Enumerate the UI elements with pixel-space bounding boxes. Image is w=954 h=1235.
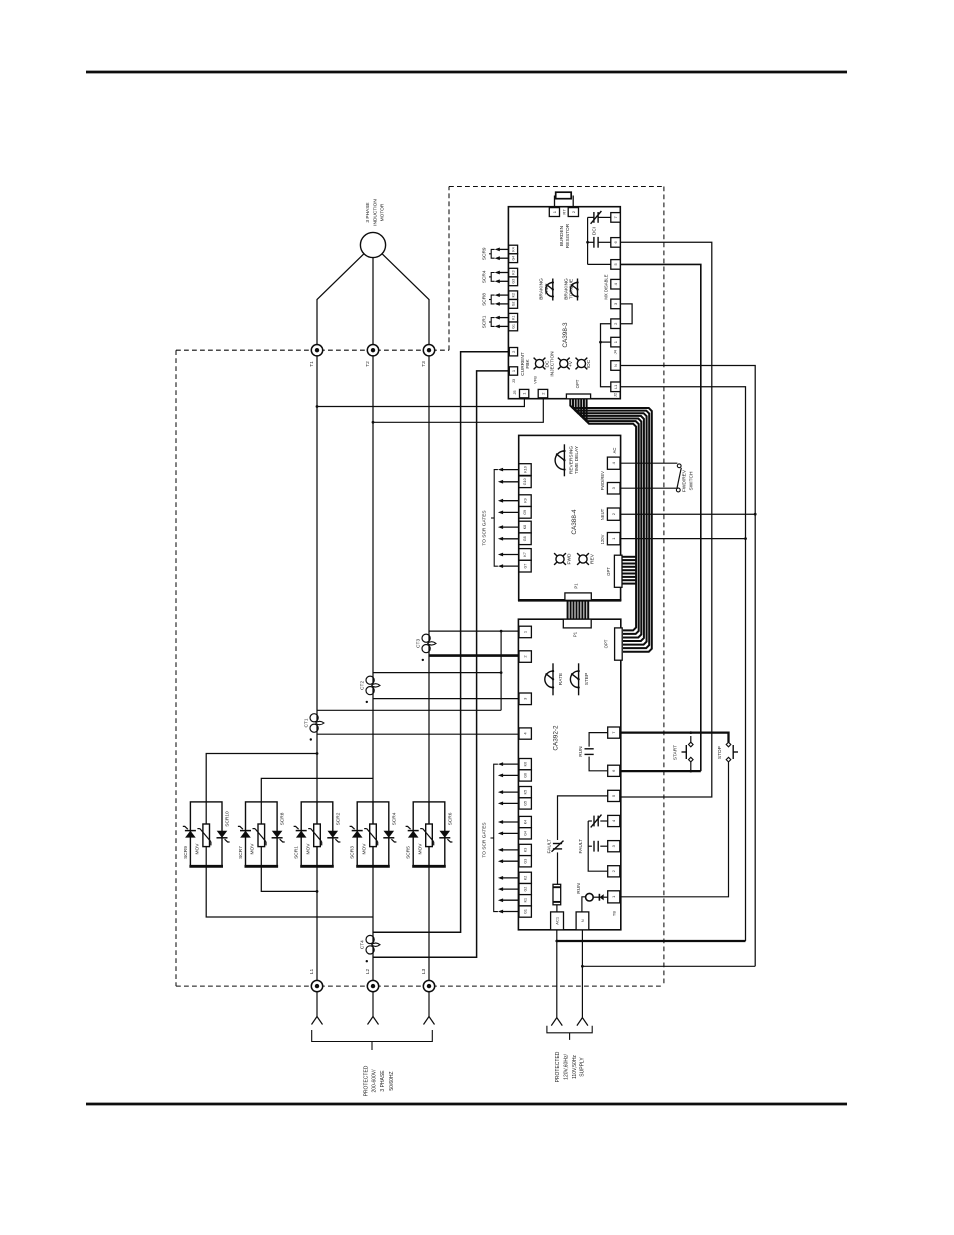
connector J4 pin 4 [611,279,621,289]
svg-text:SCR7: SCR7 [238,846,244,859]
svg-text:MOV: MOV [195,843,201,855]
svg-text:CA398-3: CA398-3 [562,322,569,348]
snubber/SCR assembly SCR3/SCR4 outline [357,802,389,866]
connector CA392-2 pin 1 [519,626,531,638]
svg-text:CT2: CT2 [359,681,365,690]
pushbutton START [689,742,694,747]
connector J4 pin 7 [611,213,621,223]
svg-text:R7: R7 [561,209,566,215]
gate connector G8 CA388-4 [519,533,531,545]
wire CA388-4 pin2 NEUT to neutral net [621,513,756,515]
center branch wire of SCR7 block [260,802,262,866]
connector J4 pin 1 [611,337,621,347]
gate connector G4 [509,254,518,263]
svg-text:STOP: STOP [717,746,723,759]
center branch wire of SCR1 block [316,802,318,866]
svg-text:110V,50Hz: 110V,50Hz [572,1055,578,1079]
wire AC1 to supply arrow [556,930,558,1018]
connector CA392-2 pin 3 [519,693,531,705]
svg-text:G2: G2 [511,302,515,307]
gate connector G6 CA392-2 [519,770,531,781]
enclosure dashed border left side [175,350,177,986]
svg-text:REVERSING: REVERSING [568,446,574,475]
wire L2 to supply arrow [372,992,374,1017]
svg-text:SCR9: SCR9 [482,247,488,260]
wire CA398-3 J4 pin6 to CA392-2 TB5 [620,242,712,797]
gate connector K1 [509,313,518,322]
ribbon patch at CA388-4 OPT connector [622,556,637,558]
wire fuse to AC1 [556,905,558,913]
svg-text:K2: K2 [511,293,515,297]
svg-text:P1: P1 [574,583,579,589]
junction internal jumper pin1 [599,341,602,344]
connector J4 pin 2 [611,319,621,329]
gate connector K7 CA388-4 [519,549,531,561]
connector J5 pin 1 [520,389,529,397]
terminal TB pin 4 [608,815,620,826]
potentiometer BRAKING TORQUE [577,279,579,301]
snubber/SCR assembly SCR1/SCR2 outline [301,802,333,866]
gate wires TO SCR GATES CA392-2 [503,763,520,765]
thyristor SCR2 [327,837,338,839]
center branch wire of SCR9 block [205,802,207,866]
svg-text:BRAKING: BRAKING [539,278,545,300]
potentiometer BRAKING TIME [552,279,554,301]
svg-text:SCR1: SCR1 [482,315,488,328]
connector J4 pin 3 [611,299,621,309]
svg-text:L3: L3 [421,969,427,975]
svg-text:FAULT: FAULT [578,839,584,854]
enclosure dashed border bottom segment through L terminals [176,985,664,987]
MOV varistor of SCR9 block [203,824,210,847]
svg-text:3 PHASE: 3 PHASE [380,1070,386,1092]
svg-text:SCR9: SCR9 [183,846,189,859]
gate connector K1 CA392-2 [519,895,531,906]
gate connector K6 CA392-2 [519,759,531,770]
svg-text:SCR4: SCR4 [391,812,397,825]
thyristor SCR6 [439,837,450,839]
svg-text:TO SCR GATES: TO SCR GATES [482,822,488,857]
svg-text:MOV: MOV [305,843,311,855]
terminal TB pin 6 [608,765,620,776]
phase wire L2/T2 [372,356,374,980]
wire CA398-3 J2 L1 to 120V net [620,387,745,941]
svg-text:K5: K5 [524,790,528,794]
svg-text:K9: K9 [523,498,527,502]
relay contact FAULT (NO) TB3 [600,845,607,847]
wire N to supply arrow [581,930,583,1018]
svg-text:MOV: MOV [417,843,423,855]
MOV varistor of SCR1 block [314,824,321,847]
thyristor SCR4 [383,837,394,839]
svg-text:L1: L1 [309,969,315,975]
svg-text:SCR2: SCR2 [335,812,341,825]
svg-text:CT4: CT4 [359,940,365,949]
svg-text:50/60HZ: 50/60HZ [389,1071,395,1090]
wire motor to T1 [317,254,364,345]
relay contact FAULT (NC) in AC1 path [553,843,562,845]
connector J4 pin 5 [611,260,621,270]
svg-text:RUN: RUN [578,746,584,757]
svg-text:CA392-2: CA392-2 [553,725,560,751]
gate connector G9 CA388-4 [519,507,531,519]
svg-text:NEUT: NEUT [600,508,605,520]
svg-text:L1: L1 [614,385,618,389]
wire motor to T2 [372,258,374,345]
center branch wire of SCR5 block [428,802,430,866]
svg-text:SCR3: SCR3 [350,846,356,859]
connector CA388-4 pin 2 [607,508,620,520]
junction CT2 top / common [500,671,503,674]
svg-text:IOC: IOC [586,359,592,368]
terminal TB pin 1 [608,891,620,903]
terminal T2 [367,345,378,356]
gate wires TO SCR GATES CA388-4 [503,469,519,471]
wire RUN lamp to N [582,897,586,913]
junction NEUT / neutral net [754,513,757,516]
connector CA392-2 pin 4 [519,728,531,739]
svg-text:K3: K3 [511,270,515,274]
relay contact FAULT (NC) TB4 [600,820,607,822]
wire START bottom to TB6 wire [690,762,692,771]
wire CT common vertical [500,631,502,710]
thyristor SCR5 [408,830,419,832]
svg-text:CT3: CT3 [415,639,421,648]
wire TB6 to START bottom (bold) [621,770,701,772]
wire SCR9/SCR10 block bottom to phase 2 [206,866,373,917]
svg-text:G3: G3 [511,279,515,284]
terminal TB pin 3 [608,841,620,852]
resistor R7 [554,196,556,208]
terminal L2 [367,980,378,991]
junction 120V net [744,537,747,540]
gate connector K3 [509,268,518,277]
gate connector G2 CA392-2 [519,884,531,895]
svg-text:+V: +V [568,360,574,367]
terminal T1 [311,345,322,356]
terminal TB pin 7 [608,727,620,738]
potentiometer REVERSING TIME DELAY [563,444,565,476]
board CA388-4 outline [519,435,621,600]
svg-text:INDUCTION: INDUCTION [372,199,378,226]
svg-text:FWD/REV: FWD/REV [600,471,605,491]
board CA392-2 outline [518,619,620,930]
pushbutton STOP [726,742,731,747]
junction DCI [586,241,589,244]
svg-text:G8: G8 [523,536,527,541]
junction phase1 / SCR7 block [316,890,319,893]
enclosure dashed border top-left segment through T terminals [176,349,449,351]
svg-text:REV: REV [589,553,595,564]
svg-text:T1: T1 [309,361,315,367]
svg-text:BRAKING: BRAKING [563,278,569,300]
svg-text:CT1: CT1 [303,718,309,727]
wire CA398-3 VFB pin to phase 2 [373,399,543,423]
wire START top to TB7 wire [690,736,692,742]
svg-text:K3: K3 [524,848,528,852]
junction AC1 / 120V net [555,940,558,943]
jumper J4 pins 2,1 to J2 L1 [601,324,611,387]
svg-text:N: N [613,364,618,367]
gate connector K9 CA388-4 [519,495,531,507]
ribbon cable from CA388-4 P1 to CA392-2 P1 [567,600,569,619]
svg-text:SCR8: SCR8 [482,293,488,306]
snubber/SCR assembly SCR7/SCR8 outline [246,802,278,866]
svg-text:OPT: OPT [575,379,580,388]
phase wire L3/T3 [428,356,430,980]
gate connector K8 CA388-4 [519,521,531,533]
wire CT3 top secondary to CA392-2 pin 1 [429,630,519,632]
ribbon cable from CA398-3 OPT to CA388-4/CA392-2 OPT (striped band) [570,399,652,652]
wire CA388-4 pin3 to FWD/REV switch [621,487,677,489]
svg-text:G2: G2 [524,887,528,892]
svg-text:RESISTOR: RESISTOR [565,223,571,248]
svg-text:SWITCH: SWITCH [689,471,695,490]
potentiometer RATE [552,663,554,695]
MOV varistor of SCR7 block [258,824,265,847]
enclosure dashed border top segment [449,186,664,188]
wire CT3 bottom secondary to CA392-2 pin 2 (bold) [429,654,519,657]
top page rule [86,71,847,74]
current transformer CT4 [366,935,374,943]
gate connector G10 CA388-4 [519,476,531,488]
thyristor SCR7 [240,830,251,832]
wire 120V net bottom run to AC1 (bold) [557,940,746,942]
svg-text:SCR1: SCR1 [294,846,300,859]
gate connector G3 [509,277,518,286]
svg-text:G5: G5 [524,801,528,806]
connector J5 pin 2 VFB [538,389,548,397]
connector OPT CA398-3 [566,394,590,399]
svg-text:OPT: OPT [604,639,609,648]
svg-text:K4: K4 [511,247,515,251]
svg-text:OPT: OPT [606,567,611,576]
gate wires to SCR9 [499,248,509,250]
lamp FWD [556,555,564,563]
gate connector G3 CA392-2 [519,856,531,867]
thyristor SCR9 [185,830,196,832]
snubber/SCR assembly SCR9/SCR10 outline [190,802,222,866]
svg-text:RATE: RATE [558,673,564,685]
connector P1 CA388-4 [565,593,591,600]
svg-text:MX DISABLE: MX DISABLE [604,274,609,299]
gate connector G5 CA392-2 [519,798,531,809]
svg-text:TB: TB [612,911,617,916]
wire CA388-4 pin1 120V to 120V net [621,538,746,540]
svg-text:SCR6: SCR6 [447,812,453,825]
svg-text:TO SCR GATES: TO SCR GATES [482,510,488,545]
jumper J4 pin3 to pin2 [620,304,632,324]
svg-text:SCR5: SCR5 [406,846,412,859]
svg-text:START: START [672,745,678,760]
3 phase induction motor [360,232,385,257]
svg-text:CA388-4: CA388-4 [571,509,578,535]
connector J3 pin 1 [509,367,517,375]
wire CA398-3 J5 pin1 to phase 1 [317,399,524,407]
wire CT2 top secondary [373,672,501,674]
svg-text:MOTOR: MOTOR [380,203,386,221]
wire DCI contacts to J4 pin5 [587,217,589,264]
thyristor SCR1 [296,830,307,832]
wire CT2 bottom secondary to CA392-2 pin 3 [373,698,519,700]
svg-text:INJECTION: INJECTION [550,351,556,377]
svg-text:120V,60Hz/: 120V,60Hz/ [564,1054,570,1080]
lamp IOC [577,359,585,367]
gate connector K2 [509,291,518,300]
terminal T3 [423,345,434,356]
wire motor to T3 [382,254,429,345]
svg-text:3 PHASE: 3 PHASE [365,202,371,222]
junction phase1 / SCR9 block [316,752,319,755]
svg-text:G10: G10 [523,478,527,485]
control supply bracket [547,1026,592,1033]
switch FWD/REV [677,464,681,468]
enclosure dashed border vertical jog at x=449 [448,187,450,351]
wire CA398-3 J2 N to neutral net [620,366,755,967]
svg-text:FWD/REV: FWD/REV [682,469,688,492]
MOV varistor of SCR3 block [370,824,377,847]
wire L1 to supply arrow [316,992,318,1017]
svg-text:TORQUE: TORQUE [569,279,575,299]
svg-text:MOV: MOV [361,843,367,855]
gate connector G2 [509,300,518,309]
lamp REV [579,555,587,563]
snubber/SCR assembly SCR5/SCR6 outline [413,802,445,866]
svg-text:P1: P1 [573,631,578,637]
gate connector G1 [509,322,518,331]
svg-text:K2: K2 [523,876,527,880]
connector J4 pin 6 [611,238,621,248]
thyristor SCR8 [272,837,283,839]
svg-text:SUPPLY: SUPPLY [579,1057,585,1077]
potentiometer STEP [578,663,580,695]
terminal N CA392-2 [576,912,589,930]
svg-text:VFB: VFB [532,376,537,384]
junction N / neutral net [581,965,584,968]
lamp DC INJECTION [535,359,543,367]
bottom page rule [86,1103,847,1106]
svg-text:PROTECTED: PROTECTED [555,1051,561,1082]
wire STOP bottom to TB1 [621,762,729,897]
svg-text:SCR10: SCR10 [225,811,231,827]
connector CA388-4 pin 3 [607,483,620,495]
svg-text:T3: T3 [421,361,427,367]
svg-text:G4: G4 [511,256,515,261]
center branch wire of SCR3 block [372,802,374,866]
current transformer CT2 [366,676,374,684]
wire CT1 bottom secondary to CA392-2 pin 4 [317,733,519,735]
svg-text:RUN: RUN [576,883,582,894]
svg-text:K6: K6 [524,762,528,766]
relay coil RUN [589,733,608,747]
gate connector K2 CA392-2 [519,872,531,883]
svg-text:G7: G7 [523,564,527,569]
junction CT commons at pin1 wire [500,630,503,633]
svg-text:K7: K7 [523,552,527,556]
svg-text:K10: K10 [523,466,527,472]
wire CA398-3 J3 pin2 to CT4 top secondary [373,352,509,933]
svg-text:STEP: STEP [584,673,590,686]
terminal TB pin 2 [608,866,620,877]
current transformer CT1 [310,714,318,722]
terminal AC1 [551,912,564,930]
gate connector G1 CA392-2 [519,906,531,917]
gate connector K10 CA388-4 [519,464,531,476]
svg-text:TIME: TIME [544,283,550,294]
svg-text:K1: K1 [524,898,528,902]
svg-text:FWD: FWD [566,553,572,564]
wire CA388-4 pin4 to FWD/REV switch [621,462,678,464]
junction START top [689,731,692,734]
svg-text:FBK: FBK [525,359,531,369]
connector CA388-4 pin 4 [607,457,620,469]
wire TB7 to START/STOP (bold) [621,733,729,743]
svg-text:FAULT: FAULT [546,839,552,854]
connector R7 pin 1 [549,208,559,217]
connector J2 N [611,361,621,371]
board CA398-3 outline [508,207,620,399]
svg-text:AC1: AC1 [554,916,559,925]
connector R7 pin 2 [568,208,578,217]
gate connector G7 CA388-4 [519,560,531,572]
gate connector K5 CA392-2 [519,787,531,798]
svg-text:TIME DELAY: TIME DELAY [574,445,580,474]
wire FAULT contact to fuse [557,852,559,884]
relay contact DCI (NC, timed) [598,216,611,218]
wire SCR9/SCR10 block top to phase 1 [206,754,317,802]
connector P1 CA392-2 [563,619,591,628]
thyristor SCR3 [352,830,363,832]
connector CA388-4 pin 1 [607,533,620,545]
gate connector K4 [509,245,518,254]
svg-text:200-600V/: 200-600V/ [372,1069,378,1093]
enclosure dashed border right side [663,187,665,987]
svg-text:K8: K8 [523,525,527,529]
junction VFB / phase2 [372,421,375,424]
svg-text:K4: K4 [524,820,528,824]
wire L3 to supply arrow [428,992,430,1017]
connector J3 pin 2 [509,348,517,356]
wire SCR7/SCR8 block top to phase 2 [261,778,373,802]
wire neutral net bottom run to N [582,965,755,967]
wire SCR7/SCR8 block bottom to phase 1 [261,866,317,891]
thyristor SCR10 [217,837,228,839]
svg-text:G4: G4 [523,831,527,836]
svg-text:G3: G3 [524,859,528,864]
junction J5-1 / phase1 [316,405,319,408]
wire FAULT contacts to TB2 [588,821,608,871]
wire TB5 to FAULT contact [558,796,608,840]
svg-text:L2: L2 [365,969,371,975]
gate connector G4 CA392-2 [519,828,531,839]
connector OPT CA392-2 [615,628,623,660]
svg-text:K1: K1 [511,316,515,320]
phase wire L1/T1 [316,356,318,980]
svg-text:BURDEN: BURDEN [559,225,565,246]
gate wires to SCR8 [499,294,509,296]
current transformer CT3 [422,634,430,642]
svg-text:T2: T2 [365,361,371,367]
junction START bottom [689,770,692,773]
relay contact DCI capacitor (NO) [598,241,611,243]
connector OPT CA388-4 [614,555,622,587]
connector J2 L1 [611,382,621,392]
fuse in AC1 path [553,884,561,905]
3 phase supply bracket [312,1030,433,1042]
svg-text:G9: G9 [523,510,527,515]
MOV varistor of SCR5 block [426,824,433,847]
wire CA398-3 J3 pin1 to CT4 bottom secondary [373,371,509,957]
